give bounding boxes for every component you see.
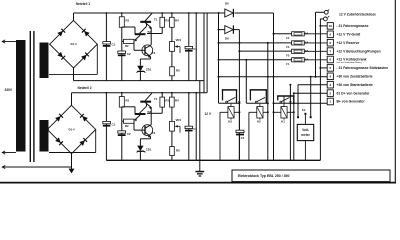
svg-text:+12 V Beleuchtung/Pumpen: +12 V Beleuchtung/Pumpen	[337, 49, 381, 53]
svg-text:4: 4	[329, 75, 331, 79]
svg-text:+12 V Reserve: +12 V Reserve	[337, 41, 360, 45]
svg-text:ZD1: ZD1	[146, 68, 152, 72]
svg-text:R5: R5	[176, 69, 180, 73]
svg-text:T3: T3	[152, 51, 156, 55]
svg-text:C1: C1	[112, 122, 116, 126]
svg-text:F4: F4	[286, 36, 290, 40]
svg-text:R1: R1	[126, 19, 130, 23]
svg-text:F1: F1	[286, 62, 290, 66]
svg-text:2: 2	[329, 91, 331, 95]
svg-text:(nur bei laufendem Motor): (nur bei laufendem Motor)	[337, 61, 362, 64]
svg-text:R4: R4	[175, 19, 179, 23]
svg-text:VR1: VR1	[176, 38, 182, 42]
svg-text:Volt-: Volt-	[302, 128, 309, 132]
svg-text:Netzteil 2: Netzteil 2	[78, 86, 92, 90]
svg-text:8: 8	[329, 41, 331, 45]
svg-text:R2: R2	[125, 44, 129, 48]
svg-text:K2: K2	[257, 120, 261, 124]
svg-text:61 D+ von Generator: 61 D+ von Generator	[337, 91, 370, 95]
svg-text:D1-4: D1-4	[68, 128, 75, 132]
svg-text:K1: K1	[281, 120, 285, 124]
svg-text:5: 5	[329, 66, 331, 70]
svg-text:+30 von Zusatzbatterie: +30 von Zusatzbatterie	[337, 74, 373, 78]
svg-text:D5: D5	[225, 2, 229, 6]
svg-text:R3: R3	[165, 98, 169, 102]
svg-text:10: 10	[329, 24, 333, 28]
svg-text:R5: R5	[176, 148, 180, 152]
svg-text:1: 1	[329, 100, 331, 104]
svg-text:R2: R2	[125, 124, 129, 128]
svg-text:meter: meter	[301, 133, 310, 137]
svg-text:T1: T1	[154, 97, 158, 101]
svg-text:7: 7	[329, 49, 331, 53]
svg-text:R3: R3	[165, 19, 169, 23]
svg-text:R4: R4	[175, 98, 179, 102]
svg-text:+12 V Kühlschrank: +12 V Kühlschrank	[337, 58, 367, 62]
svg-text:C2: C2	[127, 52, 131, 56]
svg-text:T1: T1	[154, 17, 158, 21]
svg-text:12 V Zubehörsteckdose: 12 V Zubehörsteckdose	[339, 12, 376, 16]
svg-text:Netzteil 1: Netzteil 1	[76, 2, 90, 6]
svg-text:C4: C4	[241, 136, 245, 140]
svg-text:R1: R1	[126, 98, 130, 102]
svg-text:- 31 Fahrzeugmasse Stützkasten: - 31 Fahrzeugmasse Stützkasten	[337, 66, 389, 70]
svg-text:B+ von Generator: B+ von Generator	[337, 100, 366, 104]
svg-text:Elektroblock Typ EBL 250 / 350: Elektroblock Typ EBL 250 / 350	[238, 174, 289, 178]
svg-text:3: 3	[329, 83, 331, 87]
svg-text:C1: C1	[112, 43, 116, 47]
svg-text:S1: S1	[302, 108, 306, 112]
svg-text:9: 9	[329, 33, 331, 37]
svg-text:C2: C2	[127, 132, 131, 136]
svg-text:VR1: VR1	[176, 118, 182, 122]
svg-text:230V: 230V	[5, 88, 13, 92]
svg-text:6: 6	[329, 58, 331, 62]
svg-text:F3: F3	[286, 45, 290, 49]
svg-text:12 V: 12 V	[205, 112, 212, 116]
svg-text:+30 von Starterbatterie: +30 von Starterbatterie	[337, 83, 373, 87]
svg-text:T3: T3	[152, 131, 156, 135]
svg-text:- 31 Fahrzeugmasse: - 31 Fahrzeugmasse	[337, 24, 369, 28]
svg-text:D1-4: D1-4	[70, 42, 77, 46]
svg-text:+12 V TV-Gerät: +12 V TV-Gerät	[337, 32, 362, 36]
svg-text:F2: F2	[286, 54, 290, 58]
svg-text:D6: D6	[225, 36, 229, 40]
svg-text:ZD1: ZD1	[146, 147, 152, 151]
svg-text:K3: K3	[228, 120, 232, 124]
